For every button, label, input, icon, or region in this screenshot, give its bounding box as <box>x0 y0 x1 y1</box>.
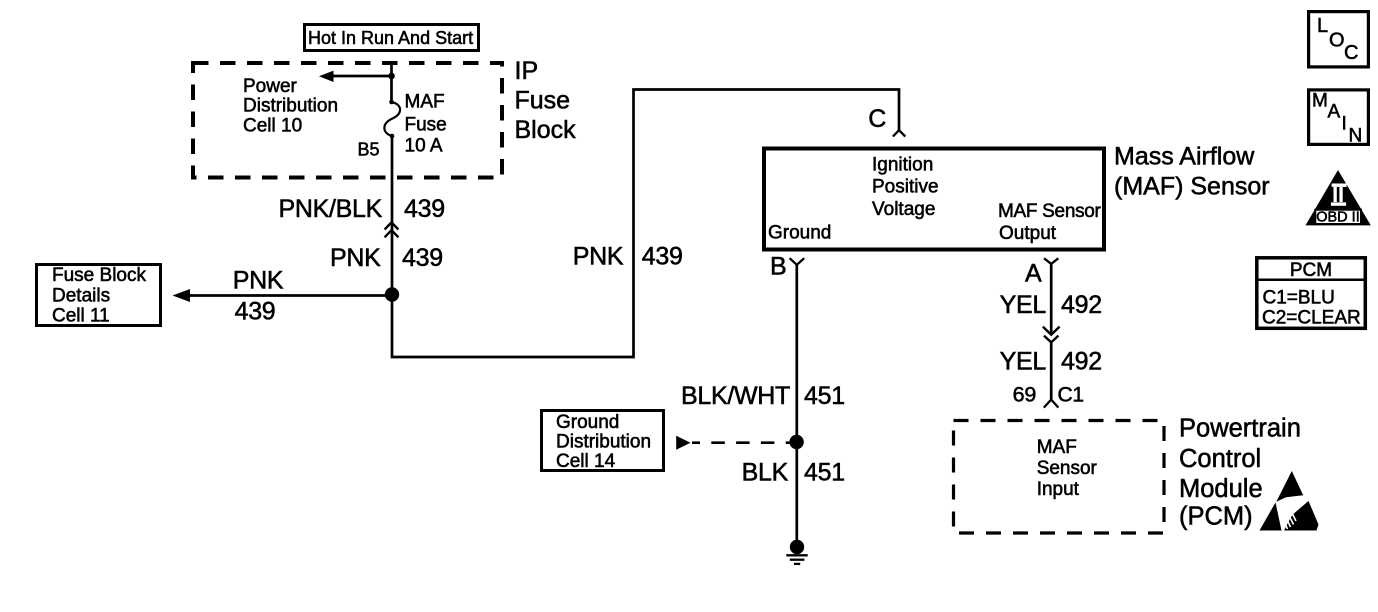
svg-text:OBD II: OBD II <box>1316 209 1360 225</box>
svg-text:Distribution: Distribution <box>243 96 338 117</box>
svg-text:Output: Output <box>999 223 1057 244</box>
svg-text:Input: Input <box>1037 479 1080 500</box>
svg-text:PNK: PNK <box>233 266 284 294</box>
svg-text:B: B <box>770 252 787 280</box>
svg-text:Cell 10: Cell 10 <box>243 116 302 137</box>
svg-text:PNK: PNK <box>330 244 381 272</box>
svg-text:BLK/WHT: BLK/WHT <box>681 382 790 410</box>
svg-text:10 A: 10 A <box>405 136 443 157</box>
svg-text:Ground: Ground <box>556 412 619 433</box>
svg-text:B5: B5 <box>357 140 379 160</box>
svg-text:I: I <box>1342 114 1347 135</box>
svg-text:492: 492 <box>1061 291 1102 319</box>
svg-text:Cell 14: Cell 14 <box>556 451 616 472</box>
svg-text:A: A <box>1328 102 1341 123</box>
svg-text:Details: Details <box>52 286 110 307</box>
svg-text:Positive: Positive <box>872 177 939 198</box>
svg-text:492: 492 <box>1061 348 1102 376</box>
svg-text:439: 439 <box>642 243 683 271</box>
svg-text:MAF: MAF <box>405 91 445 112</box>
svg-text:Fuse: Fuse <box>515 87 571 115</box>
svg-text:439: 439 <box>235 298 276 326</box>
svg-text:451: 451 <box>804 382 845 410</box>
svg-text:C1=BLU: C1=BLU <box>1263 287 1335 308</box>
svg-text:439: 439 <box>402 244 443 272</box>
svg-text:C: C <box>1344 42 1358 64</box>
svg-text:L: L <box>1317 15 1328 37</box>
svg-text:Powertrain: Powertrain <box>1179 415 1301 443</box>
svg-text:Fuse: Fuse <box>405 114 447 135</box>
svg-text:PNK: PNK <box>573 243 624 271</box>
svg-text:Module: Module <box>1179 475 1263 503</box>
svg-text:C2=CLEAR: C2=CLEAR <box>1262 308 1361 329</box>
svg-text:Control: Control <box>1179 445 1261 473</box>
svg-text:Ground: Ground <box>768 222 831 243</box>
svg-text:MAF Sensor: MAF Sensor <box>998 201 1102 222</box>
svg-text:C: C <box>868 105 886 133</box>
svg-text:(PCM): (PCM) <box>1179 502 1253 530</box>
svg-text:69: 69 <box>1013 383 1036 407</box>
svg-text:IP: IP <box>515 57 539 85</box>
svg-text:Block: Block <box>515 116 577 144</box>
svg-text:PCM: PCM <box>1290 260 1332 281</box>
svg-text:O: O <box>1329 30 1345 52</box>
svg-text:YEL: YEL <box>1000 348 1047 376</box>
svg-text:BLK: BLK <box>742 459 789 487</box>
svg-text:Voltage: Voltage <box>872 199 935 220</box>
svg-text:Cell 11: Cell 11 <box>52 306 110 327</box>
svg-text:Sensor: Sensor <box>1037 458 1098 479</box>
svg-text:Hot In Run And Start: Hot In Run And Start <box>308 28 473 48</box>
svg-text:Fuse Block: Fuse Block <box>52 265 146 286</box>
svg-text:439: 439 <box>404 195 445 223</box>
svg-text:Mass Airflow: Mass Airflow <box>1114 143 1255 171</box>
svg-text:M: M <box>1312 91 1328 112</box>
svg-text:Power: Power <box>243 76 298 97</box>
svg-text:Ignition: Ignition <box>872 154 933 175</box>
svg-text:MAF: MAF <box>1037 437 1077 458</box>
svg-text:YEL: YEL <box>1000 291 1047 319</box>
svg-text:451: 451 <box>804 459 845 487</box>
svg-text:PNK/BLK: PNK/BLK <box>278 195 382 223</box>
svg-text:C1: C1 <box>1058 384 1084 407</box>
svg-text:A: A <box>1025 259 1042 287</box>
svg-text:N: N <box>1349 126 1363 147</box>
svg-text:(MAF) Sensor: (MAF) Sensor <box>1114 173 1270 201</box>
svg-text:Distribution: Distribution <box>556 431 651 452</box>
